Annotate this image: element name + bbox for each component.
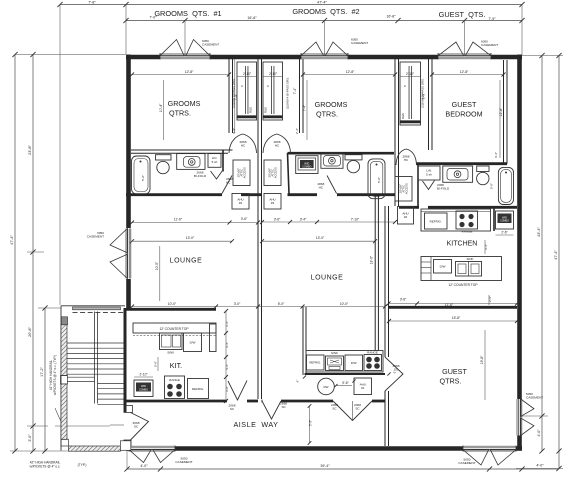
svg-text:4′-0″: 4′-0″ [536,464,544,468]
bottom dimension line 4-0 / 39-4 / 4-0 [124,451,559,472]
dims guest qtrs top 3-6 11-6 [387,298,520,308]
svg-text:CASEMENT: CASEMENT [202,43,219,47]
exterior wall bottom [126,446,522,451]
svg-text:7′-10″: 7′-10″ [351,218,360,222]
dim 12-8 unit2 bedroom [301,70,397,77]
svg-text:47′-4″: 47′-4″ [554,250,558,260]
unit1 counter end panel [210,324,217,352]
svg-text:3′-0″: 3′-0″ [234,302,241,306]
svg-text:GROOMS QTS. #1: GROOMS QTS. #1 [154,9,221,18]
svg-text:12′-8″: 12′-8″ [185,70,194,74]
handrail note rotated along stair wing [49,355,63,425]
svg-text:R&S: R&S [264,107,268,113]
guest qtrs rotated dim 19-8 [480,330,485,400]
aisle double doors 2068 SC pair [331,401,372,421]
refrigerator guest [425,213,448,229]
svg-text:HC: HC [275,144,280,148]
unit1 range [165,376,185,399]
svg-text:#3: #3 [271,201,275,205]
handrail note bottom left [30,461,87,469]
svg-text:17′-2″: 17′-2″ [40,367,44,377]
stair wing top rail band and dashed edge [73,307,126,312]
arched opening 2868 HC unit1 [229,134,257,153]
svg-text:SC: SC [281,405,286,409]
svg-text:AISLE WAY: AISLE WAY [234,420,279,429]
svg-text:w/PICKETS @ 4″ o.c.: w/PICKETS @ 4″ o.c. [30,465,61,469]
svg-text:(2)2668-4 BI-PASS DRS.: (2)2668-4 BI-PASS DRS. [286,77,290,109]
guest kitchen counter row1 [421,209,491,231]
small dims 6in unit2 kitchen [296,371,397,383]
svg-text:RW: RW [324,385,329,389]
unit1 bedroom east wall [229,59,233,133]
party wall unit2/guest lower [385,206,389,446]
vanity sink unit2 [321,153,343,168]
exterior wall top [126,55,522,60]
svg-text:GROOMS QTS. #2: GROOMS QTS. #2 [292,7,359,16]
closet dims 2-10 [237,72,421,87]
svg-text:2′-4″: 2′-4″ [295,127,299,134]
unit1 kitchen dims right side [224,309,229,403]
svg-text:LOUNGE: LOUNGE [170,258,203,265]
svg-text:BEDROOM: BEDROOM [445,110,482,119]
washer dryer unit2 [296,156,318,174]
svg-text:8′-0″: 8′-0″ [421,92,425,99]
room label KIT. [170,361,182,370]
unit title GROOMS QTS. #1 [154,9,221,18]
svg-text:HC: HC [404,158,409,162]
svg-text:HC: HC [241,144,246,148]
unit1 bath south wall [126,193,262,196]
svg-text:R&S: R&S [249,107,253,113]
svg-text:SINK: SINK [167,351,174,355]
svg-text:5 sh: 5 sh [426,173,432,177]
svg-text:10′-0″: 10′-0″ [155,261,159,270]
closet unit2 bi-pass [263,62,283,120]
toilet unit2 [345,155,362,173]
svg-text:HC: HC [226,181,231,185]
svg-text:7′-4″: 7′-4″ [302,104,306,111]
closet guest bi-pass [400,62,421,125]
svg-text:R&S: R&S [401,113,405,119]
room label GUEST QTRS. [440,367,468,386]
unit2 refrigerator [307,355,325,370]
svg-text:QTRS.: QTRS. [440,377,462,386]
svg-text:12′ COUNTER TOP: 12′ COUNTER TOP [448,283,478,287]
svg-text:KITCHEN: KITCHEN [447,241,478,248]
svg-text:2′-10″: 2′-10″ [139,373,148,377]
svg-text:SC: SC [134,425,139,429]
svg-text:ACCESS: ACCESS [243,167,247,178]
stair treads upper flight [67,343,124,374]
svg-text:ACCESS: ACCESS [405,183,409,194]
svg-text:BI-FOLD: BI-FOLD [194,174,207,178]
unit1 kitchen sink [160,333,183,355]
AHU #1 unit2 [354,378,372,395]
svg-text:3′-0″: 3′-0″ [28,434,32,442]
window 5050 casement bottom guest [458,446,516,466]
window 6050 casement guest top [438,40,498,60]
dim line lounge2 upper 3-6 / 3-4 / 7-10 [260,218,397,225]
left dimension line 17-2 for stair wing [38,305,61,453]
svg-text:GUEST QTS.: GUEST QTS. [439,10,486,19]
aisle door unit1 2068 SC label [229,404,236,412]
svg-text:GROOMS: GROOMS [315,100,348,109]
svg-text:RANGE: RANGE [462,230,473,234]
vanity sink unit1 [177,154,205,170]
svg-text:9′-6″: 9′-6″ [342,381,349,385]
party wall unit1/unit2 [258,57,262,399]
guest qtrs entry door 3068 SC [385,357,403,391]
vanity sink guest [443,166,473,182]
svg-text:43′-4″: 43′-4″ [537,227,541,237]
room label GUEST BEDROOM [445,100,482,119]
svg-text:#2: #2 [239,201,243,205]
unit1 kitchen south wall / aisle north unit1 [126,400,258,403]
svg-text:LOUNGE: LOUNGE [311,275,344,282]
attic access guest [395,177,412,202]
arched opening 2868 HC unit2 [263,134,291,153]
svg-text:2′-10″: 2′-10″ [406,72,415,76]
svg-text:39′-4″: 39′-4″ [320,464,330,468]
AHU #4 guest [398,207,414,225]
svg-text:16′-8″: 16′-8″ [386,14,396,18]
svg-text:3′-4″: 3′-4″ [232,127,236,134]
AHU #3 unit2 [264,194,281,210]
AHU #2 unit1 [232,194,249,210]
svg-text:#1: #1 [361,386,365,390]
svg-text:3′-0″: 3′-0″ [225,386,229,392]
linen cabinet unit1 [208,154,221,168]
guest bedroom south wall [416,60,507,164]
dim line lounge1 13-0 [130,236,234,243]
svg-text:5′-0″: 5′-0″ [278,302,285,306]
svg-text:6″: 6″ [296,380,300,383]
svg-text:SC: SC [394,368,399,372]
unit2 bedroom west wall [300,59,304,133]
svg-text:D/W: D/W [190,341,196,345]
dim 5-0 vertical arrow kit [153,357,158,371]
svg-text:7′-4″: 7′-4″ [234,93,238,100]
unit2 dishwasher [345,355,363,371]
dim line lounge2 13-0 [260,236,377,243]
unit1 kitchen counter top [133,323,216,336]
svg-text:SC: SC [230,407,235,411]
svg-text:BI-FOLD: BI-FOLD [437,187,450,191]
svg-text:QTRS.: QTRS. [316,110,338,119]
svg-text:RANGE: RANGE [367,351,378,355]
svg-text:3′-4″: 3′-4″ [484,244,488,250]
left dimension line 23-8 / 20-8 / 3-0 [10,52,110,454]
aisle north wall unit2 [262,400,386,403]
svg-text:CASEMENT: CASEMENT [481,43,498,47]
svg-text:ACCESS: ACCESS [274,167,278,178]
dim 9-6 unit2 [334,379,355,387]
unit2 water heater RW [318,378,335,395]
bathtub guest [490,167,514,204]
right dimension line 43-4 / 4-0 [522,53,563,454]
svg-text:12′-8″: 12′-8″ [346,70,355,74]
stair treads lower flight [98,384,124,405]
stair wing outline [61,306,125,451]
closet labels bi-pass doors [231,77,424,109]
window 5050 casement bottom aisle [129,446,193,465]
svg-text:D/W: D/W [440,265,446,269]
window 6050 casement left wall lounge [87,229,131,279]
unit1 dishwasher [184,333,202,352]
stair mid landing [67,377,95,381]
dim 12-8 unit1 bedroom [130,70,231,77]
washer dryer combo guest [496,211,514,235]
guest bedroom west wall [429,59,433,150]
room label LOUNGE unit2 [311,275,344,282]
dim line lounge1 upper 11-6 / 3-6 [130,217,260,225]
svg-text:GUEST: GUEST [452,100,477,109]
svg-text:KIT.: KIT. [170,361,182,370]
svg-text:2′-6″: 2′-6″ [501,231,508,235]
svg-text:CASEMENT: CASEMENT [351,41,368,45]
svg-text:(TYP.): (TYP.) [78,463,87,467]
svg-text:3′-6″: 3′-6″ [274,218,281,222]
unit title GUEST QTS. [439,10,486,19]
svg-text:7′-4″: 7′-4″ [293,87,297,94]
svg-text:3′-4″: 3′-4″ [300,218,307,222]
svg-text:12′-8″: 12′-8″ [499,107,503,116]
bifold door guest 2068 [423,181,450,191]
svg-text:3′-6″: 3′-6″ [241,217,248,221]
svg-text:5 sh: 5 sh [212,160,218,164]
bath door unit1 2868 HC [222,176,233,194]
range guest [456,211,478,234]
svg-text:COMBO: COMBO [302,165,311,168]
svg-text:3′-6″: 3′-6″ [400,298,407,302]
svg-text:11′-6″: 11′-6″ [445,303,454,307]
exterior wall right [517,55,522,449]
svg-text:CASEMENT: CASEMENT [458,461,475,465]
svg-text:COMBO: COMBO [139,388,148,391]
second top dimension line 7-0 / 16-8 / 16-8 / 7-9 [123,14,524,56]
attic access unit2 [264,160,281,186]
bathtub unit1 [132,156,151,194]
toilet guest [477,166,489,185]
svg-text:5′-0″: 5′-0″ [377,177,381,183]
linen cabinet guest [418,166,440,180]
unit1 kitchen door 2068 [228,381,247,401]
svg-text:5′-0″: 5′-0″ [490,183,494,189]
stair door 3068 SC into aisle [110,406,149,447]
bifold door unit1 2068 [194,171,223,180]
svg-text:SINK: SINK [331,351,338,355]
svg-text:7′-9″: 7′-9″ [488,17,496,21]
dim line lounge bottom 10-0 3-0 5-0 10-0 [130,302,387,308]
dim 12-8 guest bedroom [430,70,506,77]
unit2 kitchen sink [326,351,344,371]
unit2 kitchen enclosure walls [303,307,385,375]
arched opening 2868 HC guest [396,149,417,165]
svg-text:10′-0″: 10′-0″ [340,302,349,306]
rotated dims right of unit1 bedroom [232,59,238,134]
svg-text:15′-8″: 15′-8″ [452,316,461,320]
rotated dim 10-4 unit1 [159,80,164,140]
svg-text:2′-6″: 2′-6″ [488,296,492,302]
overall top dimension line 7-8 / 47-4 [57,0,524,305]
unit title GROOMS QTS. #2 [292,7,359,16]
svg-text:2′-10″: 2′-10″ [269,72,278,76]
guest qtrs north wall [389,306,518,309]
guest kitchen counter row2 with sink and dishwasher [421,257,502,287]
svg-text:5′-3″: 5′-3″ [309,419,313,426]
guest bath walls [418,164,494,231]
svg-text:3′-4″: 3′-4″ [225,321,229,327]
svg-text:47′-4″: 47′-4″ [317,0,327,4]
svg-text:3′-4″: 3′-4″ [225,342,229,348]
svg-text:12′ COUNTER TOP: 12′ COUNTER TOP [159,327,189,331]
rotated dims guest bedroom [421,80,502,158]
lounge2 east wall [369,196,378,351]
unit1 lounge south wall [126,308,216,311]
unit2 kitchen counter [306,351,383,373]
party wall unit2/guest upper [395,57,399,206]
svg-text:SINK: SINK [466,257,473,261]
svg-text:SC: SC [355,407,360,411]
svg-text:CASEMENT: CASEMENT [87,235,104,239]
svg-text:REFRIG.: REFRIG. [192,387,204,391]
rotated dims unit2 bedroom side [295,80,307,140]
svg-text:11′-6″: 11′-6″ [174,217,183,221]
unit1 refrigerator [188,379,209,399]
svg-text:13′-0″: 13′-0″ [316,236,325,240]
svg-text:20′-8″: 20′-8″ [28,327,32,337]
room label AISLE WAY [234,420,279,429]
dim line 15-8 guest qtrs [387,316,519,323]
svg-text:19′-8″: 19′-8″ [480,355,484,364]
dims right of guest kitchen [484,240,492,305]
room label GROOMS QTRS. unit2 [315,100,348,119]
stair wing bottom handrail hatched [68,441,130,451]
room label GROOMS QTRS. unit1 [168,99,201,118]
stair center stringer [95,312,98,404]
svg-text:GROOMS: GROOMS [168,99,201,108]
window 5050 casement right wall guest qtrs [517,392,543,436]
svg-text:5′-0″: 5′-0″ [153,361,157,367]
svg-text:RANGE: RANGE [169,378,180,382]
svg-text:12′-8″: 12′-8″ [460,70,469,74]
svg-text:D/W: D/W [351,361,357,365]
svg-text:HC: HC [319,186,324,190]
svg-text:2′-10″: 2′-10″ [243,72,252,76]
stair wing left handrail hatched [61,317,69,446]
rotated dim lounge1 10-0 [155,246,160,301]
svg-text:23′-8″: 23′-8″ [28,145,32,155]
bathtub unit2 [368,159,385,199]
room label LOUNGE unit1 [170,258,203,265]
svg-text:7′-0″: 7′-0″ [149,16,157,20]
unit2 bath south wall [288,153,396,195]
svg-text:16′-8″: 16′-8″ [247,16,257,20]
right dimension line 47-4 [516,53,563,471]
left dimension line 47-4 [10,52,126,454]
bath door unit2 2868 HC [317,176,336,194]
svg-text:3′-4″: 3′-4″ [494,151,498,158]
svg-text:SC: SC [332,407,337,411]
svg-text:5′-0″: 5′-0″ [141,175,145,181]
svg-text:13′-0″: 13′-0″ [186,236,195,240]
exterior wall left [125,55,129,449]
guest kitchen north wall [399,206,517,209]
aisle rotated dim 5-3 [308,404,313,445]
svg-text:47′-4″: 47′-4″ [10,235,14,245]
aisle door unit2 west 2668 SC [262,401,287,419]
svg-text:18′-0″: 18′-0″ [369,255,373,264]
svg-text:4′-0″: 4′-0″ [140,464,148,468]
window 6050 casement unit 1 top [160,39,219,60]
unit2 range [364,351,382,371]
unit1 washer dryer [134,373,153,397]
svg-text:4′-4″: 4′-4″ [225,364,229,370]
svg-text:CASEMENT: CASEMENT [526,396,543,400]
svg-text:7′-8″: 7′-8″ [88,0,96,4]
svg-text:REFRIG.: REFRIG. [309,361,321,365]
svg-text:COMBO: COMBO [500,220,509,223]
svg-text:QTRS.: QTRS. [169,109,191,118]
toilet unit1 [156,155,172,174]
svg-text:10′-4″: 10′-4″ [159,103,163,112]
svg-text:10′-0″: 10′-0″ [168,302,177,306]
svg-text:w/PICKETS @ 4″ o.c. (TYP.): w/PICKETS @ 4″ o.c. (TYP.) [53,355,57,395]
attic access unit1 [233,160,250,186]
svg-text:4′-0″: 4′-0″ [537,429,541,437]
window 6050 casement unit 2 top [301,38,368,60]
unit1 bath north wall [131,150,233,172]
svg-text:REFRIG.: REFRIG. [430,219,442,223]
svg-text:#4: #4 [404,215,408,219]
svg-text:GUEST: GUEST [442,367,467,376]
svg-text:CASEMENT: CASEMENT [175,460,192,464]
room label KITCHEN guest [447,241,478,248]
closet unit1 bi-pass [237,62,257,120]
unit2 bath north wall [288,152,395,155]
